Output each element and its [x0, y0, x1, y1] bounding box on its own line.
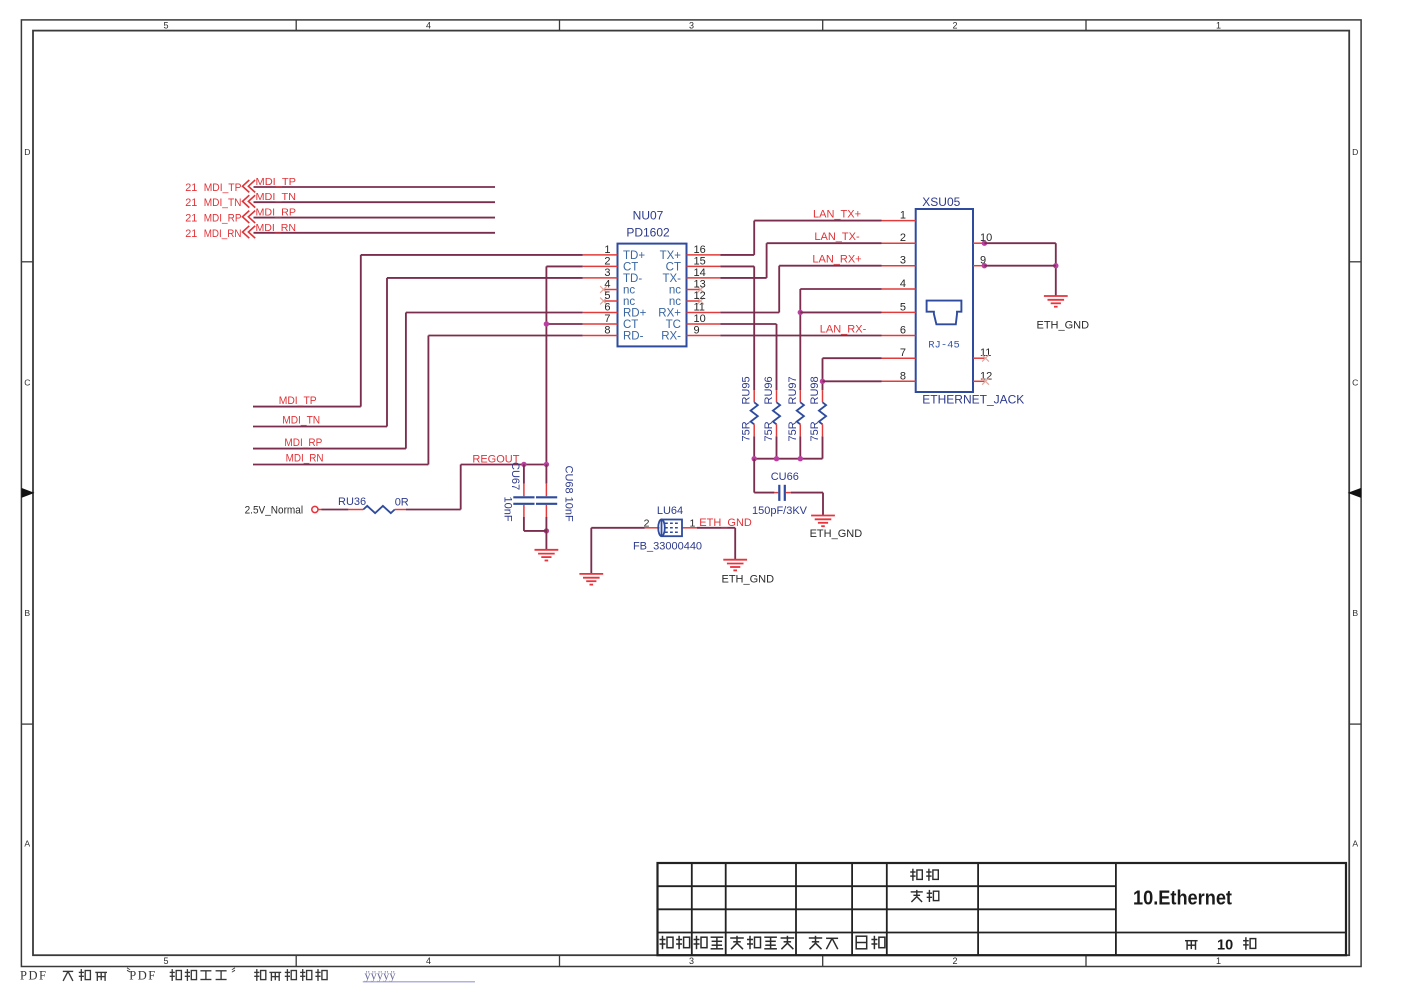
svg-text:75R: 75R — [809, 421, 821, 441]
svg-text:RU97: RU97 — [787, 376, 799, 404]
svg-text:C: C — [1352, 378, 1358, 388]
svg-text:RD+: RD+ — [623, 308, 647, 320]
svg-text:ETH_GND: ETH_GND — [810, 528, 863, 540]
svg-text:5: 5 — [604, 290, 610, 302]
svg-text:NU07: NU07 — [633, 209, 664, 223]
svg-text:1: 1 — [1216, 956, 1221, 966]
svg-text:CT: CT — [666, 262, 681, 274]
svg-text:〞: 〞 — [231, 967, 244, 982]
svg-text:2.5V_Normal: 2.5V_Normal — [245, 504, 304, 516]
svg-text:D: D — [24, 147, 30, 157]
svg-text:RJ-45: RJ-45 — [928, 340, 960, 352]
svg-text:5: 5 — [163, 956, 168, 966]
svg-text:ETHERNET_JACK: ETHERNET_JACK — [922, 393, 1024, 407]
svg-text:11: 11 — [694, 302, 705, 314]
svg-text:MDI_RP: MDI_RP — [204, 213, 242, 225]
svg-text:2: 2 — [644, 517, 650, 529]
svg-text:21: 21 — [185, 228, 197, 240]
svg-text:3: 3 — [689, 956, 694, 966]
svg-text:3: 3 — [604, 267, 610, 279]
svg-text:A: A — [24, 839, 30, 849]
svg-text:0R: 0R — [395, 497, 409, 509]
svg-text:nc: nc — [669, 296, 681, 308]
svg-text:4: 4 — [900, 278, 906, 290]
svg-text:RU96: RU96 — [763, 376, 775, 404]
svg-text:ETH_GND: ETH_GND — [699, 517, 752, 529]
svg-text:RX-: RX- — [661, 331, 681, 343]
svg-text:2: 2 — [604, 256, 610, 268]
svg-text:10: 10 — [1217, 938, 1233, 954]
svg-text:9: 9 — [694, 325, 700, 337]
svg-text:ETH_GND: ETH_GND — [1037, 320, 1090, 332]
svg-text:21: 21 — [185, 182, 197, 194]
svg-text:RU95: RU95 — [741, 376, 753, 404]
svg-text:7: 7 — [900, 347, 906, 359]
svg-text:CT: CT — [623, 262, 638, 274]
svg-text:16: 16 — [694, 244, 706, 256]
svg-text:LAN_TX-: LAN_TX- — [814, 231, 860, 243]
svg-text:4: 4 — [604, 279, 610, 291]
svg-text:B: B — [1352, 608, 1358, 618]
svg-text:6: 6 — [604, 302, 610, 314]
svg-text:4: 4 — [426, 956, 431, 966]
svg-text:75R: 75R — [763, 421, 775, 441]
svg-text:2: 2 — [900, 232, 906, 244]
svg-text:nc: nc — [623, 285, 635, 297]
svg-text:1: 1 — [1216, 21, 1221, 31]
svg-text:1: 1 — [900, 210, 906, 222]
svg-text:12: 12 — [694, 290, 706, 302]
svg-text:2: 2 — [952, 21, 957, 31]
svg-text:TD-: TD- — [623, 273, 642, 285]
svg-text:LU64: LU64 — [657, 505, 683, 517]
svg-text:5: 5 — [163, 21, 168, 31]
svg-text:XSU05: XSU05 — [922, 195, 960, 209]
svg-text:RU36: RU36 — [338, 496, 366, 508]
svg-text:CU66: CU66 — [771, 471, 799, 483]
svg-text:MDI_TP: MDI_TP — [279, 395, 317, 407]
svg-text:21: 21 — [185, 197, 197, 209]
svg-text:FB_33000440: FB_33000440 — [633, 541, 702, 553]
svg-text:C: C — [24, 378, 30, 388]
svg-text:3: 3 — [689, 21, 694, 31]
svg-text:CU67: CU67 — [509, 462, 521, 490]
svg-text:ETH_GND: ETH_GND — [722, 574, 775, 586]
svg-text:RX+: RX+ — [658, 308, 681, 320]
svg-text:TD+: TD+ — [623, 250, 645, 262]
svg-text:10.Ethernet: 10.Ethernet — [1133, 888, 1232, 910]
svg-text:nc: nc — [669, 285, 681, 297]
svg-text:15: 15 — [694, 256, 706, 268]
svg-text:1: 1 — [690, 517, 696, 529]
svg-text:8: 8 — [900, 370, 906, 382]
svg-text:21: 21 — [185, 213, 197, 225]
svg-text:MDI_RP: MDI_RP — [284, 437, 322, 449]
svg-text:PDF: PDF — [129, 969, 156, 983]
svg-text:A: A — [1352, 839, 1358, 849]
svg-text:MDI_TP: MDI_TP — [256, 176, 297, 188]
svg-text:MDI_RP: MDI_RP — [256, 207, 297, 219]
svg-text:LAN_TX+: LAN_TX+ — [813, 208, 861, 220]
svg-text:TX+: TX+ — [660, 250, 682, 262]
svg-text:150pF/3KV: 150pF/3KV — [752, 505, 808, 517]
svg-text:RD-: RD- — [623, 331, 644, 343]
svg-text:14: 14 — [694, 267, 706, 279]
svg-text:3: 3 — [900, 255, 906, 267]
svg-text:13: 13 — [694, 279, 706, 291]
svg-text:8: 8 — [604, 325, 610, 337]
svg-text:LAN_RX-: LAN_RX- — [820, 323, 867, 335]
svg-text:CT: CT — [623, 319, 638, 331]
svg-text:75R: 75R — [787, 421, 799, 441]
svg-text:2: 2 — [952, 956, 957, 966]
svg-text:1: 1 — [604, 244, 610, 256]
svg-text:PDF: PDF — [20, 969, 47, 983]
svg-text:TC: TC — [666, 319, 681, 331]
svg-text:B: B — [24, 608, 30, 618]
svg-text:RU98: RU98 — [809, 376, 821, 404]
svg-text:CU68 10nF: CU68 10nF — [562, 466, 574, 523]
svg-text:MDI_RN: MDI_RN — [204, 228, 242, 240]
svg-text:10: 10 — [694, 313, 706, 325]
svg-text:MDI_RN: MDI_RN — [256, 222, 297, 234]
svg-text:75R: 75R — [741, 421, 753, 441]
svg-text:MDI_RN: MDI_RN — [286, 453, 324, 465]
svg-text:6: 6 — [900, 325, 906, 337]
svg-text:nc: nc — [623, 296, 635, 308]
svg-text:MDI_TN: MDI_TN — [204, 197, 242, 209]
svg-text:7: 7 — [604, 313, 610, 325]
svg-text:TX-: TX- — [662, 273, 681, 285]
svg-text:LAN_RX+: LAN_RX+ — [812, 254, 861, 266]
svg-text:MDI_TN: MDI_TN — [256, 191, 297, 203]
svg-text:10nF: 10nF — [501, 497, 513, 522]
svg-text:D: D — [1352, 147, 1358, 157]
svg-text:MDI_TN: MDI_TN — [282, 415, 320, 427]
svg-text:5: 5 — [900, 301, 906, 313]
svg-text:4: 4 — [426, 21, 431, 31]
svg-text:ÿÿÿÿÿ: ÿÿÿÿÿ — [364, 969, 396, 983]
svg-text:PD1602: PD1602 — [626, 225, 670, 239]
svg-text:MDI_TP: MDI_TP — [204, 182, 242, 194]
